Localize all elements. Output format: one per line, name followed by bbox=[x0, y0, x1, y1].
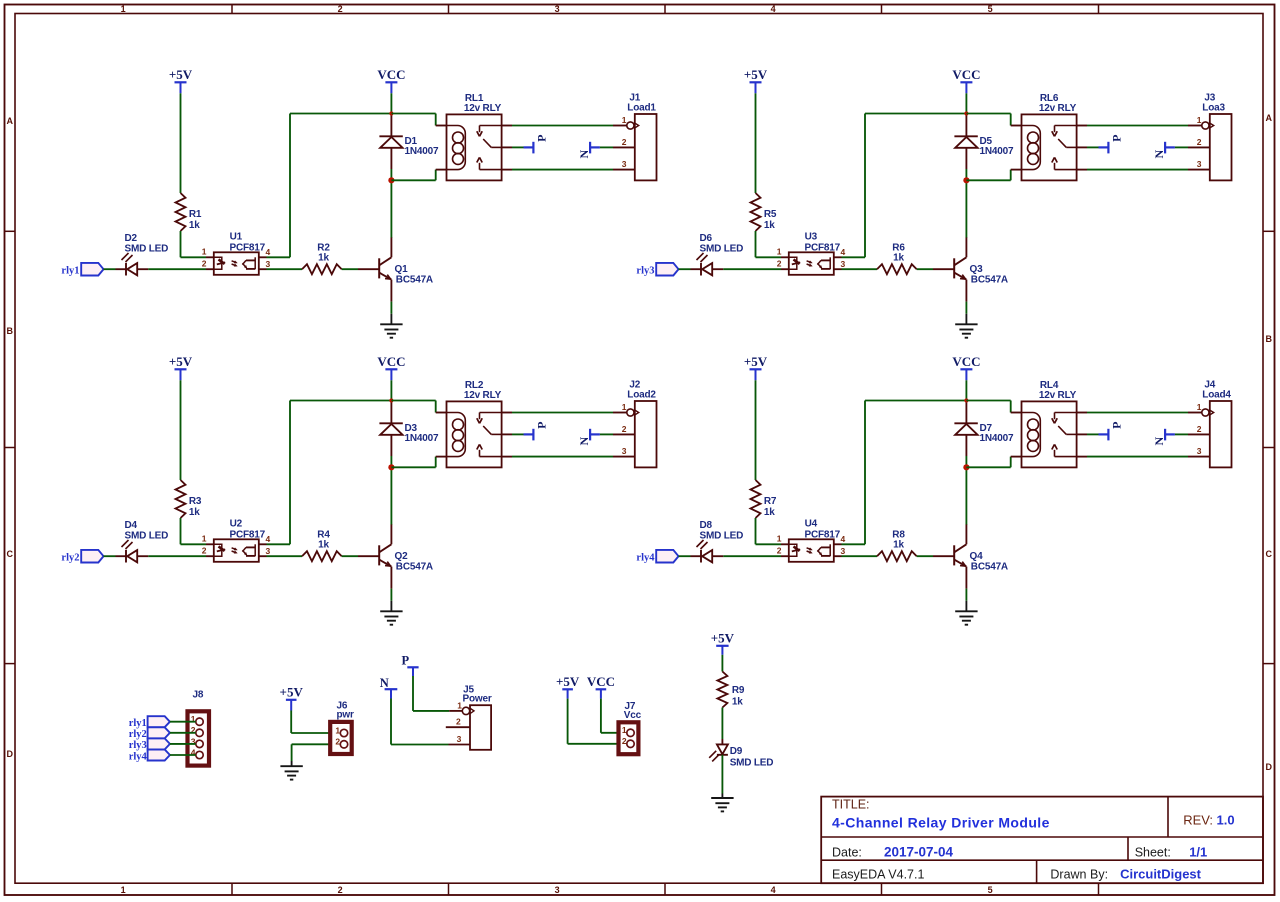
svg-text:CircuitDigest: CircuitDigest bbox=[1120, 866, 1202, 881]
svg-text:+5V: +5V bbox=[169, 67, 193, 82]
svg-text:P: P bbox=[534, 135, 548, 142]
svg-text:BC547A: BC547A bbox=[396, 274, 433, 285]
title block frame bbox=[821, 797, 1263, 884]
wire RL6 pin bottom to J3 pin 3 bbox=[1077, 169, 1087, 171]
connector J8 pin 3 circle bbox=[196, 740, 203, 747]
svg-text:+5V: +5V bbox=[280, 685, 304, 700]
svg-text:D6: D6 bbox=[700, 233, 713, 244]
relay RL2 12v RLY bbox=[447, 401, 502, 467]
wire R6 to Q3 base bbox=[917, 268, 933, 270]
svg-text:3: 3 bbox=[622, 159, 627, 169]
wire RL1 pin mid to flag P bbox=[502, 146, 512, 148]
optocoupler U1 PCF817 bbox=[214, 252, 259, 274]
resistor R5 1k bbox=[751, 193, 761, 231]
svg-text:12v RLY: 12v RLY bbox=[1039, 390, 1077, 401]
svg-text:D9: D9 bbox=[730, 746, 743, 757]
resistor R4 1k bbox=[302, 551, 342, 561]
wire collector node to Q3 bbox=[965, 180, 967, 237]
svg-text:4: 4 bbox=[266, 534, 271, 544]
wire D2 to U1 pin 2 bbox=[148, 268, 206, 270]
connector J8 pin 2 circle bbox=[196, 729, 203, 736]
net flag P bbox=[524, 433, 534, 435]
svg-text:Sheet:: Sheet: bbox=[1135, 846, 1171, 860]
LED D9 SMD LED bbox=[717, 744, 728, 754]
svg-text:4-Channel Relay Driver Module: 4-Channel Relay Driver Module bbox=[832, 815, 1050, 831]
svg-text:VCC: VCC bbox=[587, 674, 615, 689]
svg-text:N: N bbox=[1152, 437, 1166, 446]
connector J1 Load1 bbox=[635, 114, 657, 180]
wire rly3 to J8 pin 3 bbox=[170, 743, 196, 745]
svg-text:1k: 1k bbox=[732, 696, 743, 707]
wire U4 pin 3 to R8 bbox=[834, 555, 842, 557]
wire +5V to R5 bbox=[755, 93, 757, 193]
svg-text:4: 4 bbox=[841, 247, 846, 257]
net flag N bbox=[1164, 429, 1166, 441]
wire R1 to U1 pin 1 bbox=[180, 231, 182, 257]
svg-text:1: 1 bbox=[457, 700, 462, 710]
svg-text:12v RLY: 12v RLY bbox=[464, 390, 502, 401]
svg-text:2: 2 bbox=[777, 546, 782, 556]
svg-text:BC547A: BC547A bbox=[971, 561, 1008, 572]
svg-text:R9: R9 bbox=[732, 685, 745, 696]
wire node to RL6 coil top bbox=[966, 113, 1010, 115]
svg-text:1k: 1k bbox=[189, 220, 200, 231]
svg-text:3: 3 bbox=[1197, 159, 1202, 169]
optocoupler U3 PCF817 bbox=[789, 252, 834, 274]
svg-text:P: P bbox=[401, 654, 409, 668]
border row ticks left bbox=[5, 230, 16, 232]
wire VCC down bbox=[390, 93, 392, 113]
connector J6 pin 1 circle bbox=[340, 729, 347, 736]
svg-text:1k: 1k bbox=[318, 540, 329, 551]
LED D6 SMD LED bbox=[691, 268, 702, 270]
svg-text:P: P bbox=[1109, 422, 1123, 429]
resistor R7 1k bbox=[751, 480, 761, 518]
svg-text:B: B bbox=[7, 326, 14, 336]
wire D8 to U4 pin 2 bbox=[723, 555, 781, 557]
svg-text:B: B bbox=[1265, 334, 1272, 344]
net flag N bbox=[589, 142, 591, 154]
wire RL2 pin top to J2 pin 1 bbox=[502, 412, 512, 414]
svg-text:D4: D4 bbox=[125, 520, 138, 531]
wire +5V to J6 pin 1 bbox=[290, 711, 292, 734]
svg-text:1: 1 bbox=[1197, 402, 1202, 412]
svg-text:SMD LED: SMD LED bbox=[125, 243, 169, 254]
svg-text:VCC: VCC bbox=[377, 354, 405, 369]
svg-text:C: C bbox=[1265, 549, 1272, 559]
resistor R3 1k bbox=[176, 480, 186, 518]
wire U1 pin 4 to node VCC bbox=[259, 256, 267, 258]
wire collector node to Q2 bbox=[390, 467, 392, 524]
relay RL1 12v RLY bbox=[447, 114, 502, 180]
wire +5V to J7 pin 2 bbox=[567, 699, 569, 744]
svg-text:rly3: rly3 bbox=[129, 740, 147, 751]
wire U3 pin 3 to R6 bbox=[834, 268, 842, 270]
wire Q2 emitter to ground bbox=[390, 589, 392, 601]
svg-text:D: D bbox=[7, 749, 14, 759]
wire node to RL4 coil top bbox=[966, 400, 1010, 402]
svg-text:A: A bbox=[7, 116, 14, 126]
connector J6 pin 2 circle bbox=[340, 741, 347, 748]
svg-text:PCF817: PCF817 bbox=[230, 529, 266, 540]
svg-text:Loa3: Loa3 bbox=[1202, 103, 1225, 114]
svg-text:1: 1 bbox=[622, 402, 627, 412]
wire R5 to U3 pin 1 bbox=[755, 231, 757, 257]
connector J7 pin 2 circle bbox=[627, 740, 634, 747]
wire node to RL6 coil bottom bbox=[966, 179, 1010, 181]
svg-text:1: 1 bbox=[777, 534, 782, 544]
svg-text:U2: U2 bbox=[230, 518, 243, 529]
svg-text:TITLE:: TITLE: bbox=[832, 798, 870, 812]
wire +5V to R1 bbox=[180, 93, 182, 193]
wire U2 pin 4 to node VCC bbox=[259, 543, 267, 545]
svg-text:Load1: Load1 bbox=[627, 103, 656, 114]
svg-text:VCC: VCC bbox=[377, 67, 405, 82]
wire Q4 emitter to ground bbox=[965, 589, 967, 601]
svg-text:+5V: +5V bbox=[556, 674, 580, 689]
svg-text:2: 2 bbox=[202, 546, 207, 556]
svg-text:1: 1 bbox=[777, 247, 782, 257]
svg-text:PCF817: PCF817 bbox=[230, 242, 266, 253]
svg-text:+5V: +5V bbox=[169, 354, 193, 369]
wire rly4 to J8 pin 4 bbox=[170, 754, 196, 756]
svg-text:rly1: rly1 bbox=[129, 718, 147, 729]
wire rly2 to D4 bbox=[104, 555, 116, 557]
svg-text:D8: D8 bbox=[700, 520, 713, 531]
svg-text:U3: U3 bbox=[805, 231, 818, 242]
wire Q1 emitter to ground bbox=[390, 302, 392, 314]
svg-text:EasyEDA V4.7.1: EasyEDA V4.7.1 bbox=[832, 867, 924, 881]
wire U4 pin 4 to node VCC bbox=[834, 543, 842, 545]
wire Q3 emitter to ground bbox=[965, 302, 967, 314]
border column ticks bottom bbox=[231, 883, 233, 895]
svg-text:REV:: REV: bbox=[1183, 813, 1213, 828]
svg-text:SMD LED: SMD LED bbox=[730, 758, 774, 769]
svg-text:3: 3 bbox=[1197, 446, 1202, 456]
wire flag N to J3 pin 2 bbox=[1175, 146, 1188, 148]
svg-text:Vcc: Vcc bbox=[624, 710, 642, 721]
svg-text:1k: 1k bbox=[893, 540, 904, 551]
svg-text:D2: D2 bbox=[125, 233, 138, 244]
svg-text:1/1: 1/1 bbox=[1189, 845, 1207, 860]
wire rly3 to D6 bbox=[679, 268, 691, 270]
wire node to RL1 coil top bbox=[391, 113, 435, 115]
svg-text:C: C bbox=[7, 549, 14, 559]
svg-text:2: 2 bbox=[1197, 137, 1202, 147]
ground (channel 4) bbox=[955, 610, 977, 612]
junction node bottom bbox=[388, 464, 394, 470]
connector J2 Load2 bbox=[635, 401, 657, 467]
svg-text:Load4: Load4 bbox=[1202, 390, 1231, 401]
svg-text:2: 2 bbox=[202, 259, 207, 269]
wire VCC down bbox=[390, 380, 392, 400]
svg-text:R7: R7 bbox=[764, 496, 777, 507]
connector J7 pin 1 circle bbox=[627, 729, 634, 736]
net flag rly3 (J8) bbox=[148, 738, 170, 749]
svg-text:SMD LED: SMD LED bbox=[700, 530, 744, 541]
svg-text:N: N bbox=[1152, 150, 1166, 159]
svg-text:VCC: VCC bbox=[952, 354, 980, 369]
svg-text:2: 2 bbox=[1197, 424, 1202, 434]
diode D5 1N4007 bbox=[965, 114, 967, 137]
net flag N bbox=[589, 429, 591, 441]
svg-text:2: 2 bbox=[777, 259, 782, 269]
resistor R9 1k bbox=[717, 672, 727, 708]
svg-text:D: D bbox=[1265, 762, 1272, 772]
wire R2 to Q1 base bbox=[342, 268, 358, 270]
LED D2 SMD LED bbox=[116, 268, 127, 270]
wire D6 to U3 pin 2 bbox=[723, 268, 781, 270]
svg-text:U1: U1 bbox=[230, 231, 243, 242]
svg-text:BC547A: BC547A bbox=[971, 274, 1008, 285]
svg-text:3: 3 bbox=[555, 4, 560, 14]
wire R3 to U2 pin 1 bbox=[180, 518, 182, 544]
wire R9 to D9 bbox=[721, 708, 723, 740]
junction node VCC top bbox=[964, 398, 968, 402]
wire VCC down bbox=[965, 93, 967, 113]
connector J8 pin 4 circle bbox=[196, 751, 203, 758]
svg-text:rly2: rly2 bbox=[129, 729, 147, 740]
wire VCC down bbox=[965, 380, 967, 400]
border row ticks right bbox=[1263, 230, 1275, 232]
wire +5V to R7 bbox=[755, 380, 757, 480]
connector J5 pin 1 circle bbox=[462, 707, 469, 714]
connector J8 pin 1 circle bbox=[196, 718, 203, 725]
svg-text:1: 1 bbox=[121, 4, 126, 14]
junction node VCC top bbox=[964, 111, 968, 115]
wire collector node to Q4 bbox=[965, 467, 967, 524]
wire RL4 pin mid to flag P bbox=[1077, 433, 1087, 435]
wire node to RL4 coil bottom bbox=[966, 466, 1010, 468]
svg-text:1: 1 bbox=[335, 725, 340, 735]
svg-text:R5: R5 bbox=[764, 209, 777, 220]
svg-text:PCF817: PCF817 bbox=[805, 242, 841, 253]
svg-text:3: 3 bbox=[266, 546, 271, 556]
wire flag N to J1 pin 2 bbox=[600, 146, 613, 148]
ground (channel 3) bbox=[955, 323, 977, 325]
LED D4 SMD LED bbox=[116, 555, 127, 557]
wire +5V to R3 bbox=[180, 380, 182, 480]
svg-text:5: 5 bbox=[988, 885, 993, 895]
svg-text:+5V: +5V bbox=[744, 67, 768, 82]
junction node bottom bbox=[963, 464, 969, 470]
svg-text:Drawn By:: Drawn By: bbox=[1050, 867, 1108, 881]
wire RL2 pin mid to flag P bbox=[502, 433, 512, 435]
net flag N bbox=[1164, 142, 1166, 154]
svg-text:1k: 1k bbox=[764, 220, 775, 231]
svg-text:1.0: 1.0 bbox=[1217, 813, 1235, 828]
svg-text:1N4007: 1N4007 bbox=[405, 146, 439, 157]
wire N to J5 pin 3 bbox=[390, 699, 392, 745]
svg-text:rly4: rly4 bbox=[636, 553, 655, 564]
svg-text:1N4007: 1N4007 bbox=[980, 433, 1014, 444]
wire node to RL2 coil top bbox=[391, 400, 435, 402]
diode D7 1N4007 bbox=[965, 401, 967, 424]
svg-text:PCF817: PCF817 bbox=[805, 529, 841, 540]
LED D8 SMD LED bbox=[691, 555, 702, 557]
svg-text:rly3: rly3 bbox=[636, 266, 654, 277]
wire RL1 pin top to J1 pin 1 bbox=[502, 125, 512, 127]
wire RL2 pin bottom to J2 pin 3 bbox=[502, 456, 512, 458]
ground (channel 2) bbox=[380, 610, 402, 612]
border column ticks top bbox=[231, 5, 233, 14]
transistor Q1 BC547A bbox=[358, 268, 379, 270]
svg-text:1N4007: 1N4007 bbox=[980, 146, 1014, 157]
svg-text:P: P bbox=[534, 422, 548, 429]
svg-text:2: 2 bbox=[622, 137, 627, 147]
ground (J6) bbox=[280, 765, 302, 767]
svg-text:P: P bbox=[1109, 135, 1123, 142]
svg-text:4: 4 bbox=[841, 534, 846, 544]
svg-text:SMD LED: SMD LED bbox=[700, 243, 744, 254]
svg-text:12v RLY: 12v RLY bbox=[1039, 103, 1077, 114]
resistor R1 1k bbox=[176, 193, 186, 231]
connector J4 Load4 bbox=[1210, 401, 1232, 467]
wire RL1 pin bottom to J1 pin 3 bbox=[502, 169, 512, 171]
junction node bottom bbox=[388, 177, 394, 183]
wire +5V to R9 bbox=[721, 655, 723, 672]
junction node VCC top bbox=[389, 398, 393, 402]
svg-text:+5V: +5V bbox=[744, 354, 768, 369]
net flag P bbox=[524, 146, 534, 148]
svg-text:pwr: pwr bbox=[337, 710, 354, 721]
svg-text:1: 1 bbox=[202, 534, 207, 544]
svg-text:R1: R1 bbox=[189, 209, 202, 220]
resistor R2 1k bbox=[302, 264, 342, 274]
svg-text:N: N bbox=[577, 150, 591, 159]
svg-text:4: 4 bbox=[771, 885, 776, 895]
input net flag rly1 bbox=[81, 263, 103, 276]
svg-text:3: 3 bbox=[622, 446, 627, 456]
wire J6 pin 2 to ground bbox=[292, 743, 341, 745]
svg-text:2: 2 bbox=[456, 717, 461, 727]
optocoupler U4 PCF817 bbox=[789, 539, 834, 562]
svg-text:rly1: rly1 bbox=[61, 266, 79, 277]
input net flag rly3 bbox=[656, 263, 678, 276]
relay RL4 12v RLY bbox=[1022, 401, 1077, 467]
wire VCC to J7 pin 1 bbox=[600, 699, 602, 733]
resistor R8 1k bbox=[877, 551, 917, 561]
svg-text:1k: 1k bbox=[189, 507, 200, 518]
connector J3 Loa3 bbox=[1210, 114, 1232, 180]
svg-text:Load2: Load2 bbox=[627, 390, 656, 401]
wire U1 pin 3 to R2 bbox=[259, 268, 267, 270]
svg-text:3: 3 bbox=[555, 885, 560, 895]
svg-text:1: 1 bbox=[1197, 115, 1202, 125]
svg-text:3: 3 bbox=[266, 259, 271, 269]
svg-text:1N4007: 1N4007 bbox=[405, 433, 439, 444]
svg-text:4: 4 bbox=[266, 247, 271, 257]
svg-text:1k: 1k bbox=[318, 253, 329, 264]
wire rly1 to J8 pin 1 bbox=[170, 721, 196, 723]
transistor Q3 BC547A bbox=[933, 268, 954, 270]
wire U2 pin 3 to R4 bbox=[259, 555, 267, 557]
svg-text:R3: R3 bbox=[189, 496, 202, 507]
net flag P bbox=[1099, 146, 1109, 148]
input net flag rly4 bbox=[656, 550, 678, 563]
svg-text:2: 2 bbox=[338, 885, 343, 895]
svg-text:12v RLY: 12v RLY bbox=[464, 103, 502, 114]
optocoupler U2 PCF817 bbox=[214, 539, 259, 562]
wire RL6 pin top to J3 pin 1 bbox=[1077, 125, 1087, 127]
junction node VCC top bbox=[389, 111, 393, 115]
wire rly1 to D2 bbox=[104, 268, 116, 270]
diode D1 1N4007 bbox=[390, 114, 392, 137]
svg-text:2: 2 bbox=[338, 4, 343, 14]
svg-text:2: 2 bbox=[622, 424, 627, 434]
wire RL4 pin bottom to J4 pin 3 bbox=[1077, 456, 1087, 458]
diode D3 1N4007 bbox=[390, 401, 392, 424]
svg-text:rly2: rly2 bbox=[61, 553, 79, 564]
wire flag N to J2 pin 2 bbox=[600, 433, 613, 435]
net flag rly4 (J8) bbox=[148, 750, 170, 761]
wire P to J5 pin 1 bbox=[412, 676, 414, 711]
wire D4 to U2 pin 2 bbox=[148, 555, 206, 557]
input net flag rly2 bbox=[81, 550, 103, 563]
svg-text:U4: U4 bbox=[805, 518, 818, 529]
wire flag N to J4 pin 2 bbox=[1175, 433, 1188, 435]
transistor Q4 BC547A bbox=[933, 555, 954, 557]
wire RL6 pin mid to flag P bbox=[1077, 146, 1087, 148]
svg-text:5: 5 bbox=[988, 4, 993, 14]
wire node to RL2 coil bottom bbox=[391, 466, 435, 468]
svg-text:J8: J8 bbox=[193, 690, 204, 701]
svg-text:VCC: VCC bbox=[952, 67, 980, 82]
svg-text:1: 1 bbox=[121, 885, 126, 895]
relay RL6 12v RLY bbox=[1022, 114, 1077, 180]
svg-text:Power: Power bbox=[463, 693, 492, 704]
ground (D9) bbox=[711, 797, 733, 799]
svg-text:4: 4 bbox=[771, 4, 776, 14]
resistor R6 1k bbox=[877, 264, 917, 274]
svg-text:+5V: +5V bbox=[711, 631, 735, 646]
wire U3 pin 4 to node VCC bbox=[834, 256, 842, 258]
svg-text:3: 3 bbox=[841, 546, 846, 556]
svg-text:Date:: Date: bbox=[832, 846, 862, 860]
svg-text:2017-07-04: 2017-07-04 bbox=[884, 845, 954, 860]
ground (channel 1) bbox=[380, 323, 402, 325]
svg-text:2: 2 bbox=[335, 737, 340, 747]
wire R8 to Q4 base bbox=[917, 555, 933, 557]
net flag rly1 (J8) bbox=[148, 716, 170, 727]
svg-text:rly4: rly4 bbox=[129, 751, 148, 762]
svg-text:3: 3 bbox=[457, 734, 462, 744]
wire RL4 pin top to J4 pin 1 bbox=[1077, 412, 1087, 414]
svg-text:2: 2 bbox=[622, 736, 627, 746]
wire rly4 to D8 bbox=[679, 555, 691, 557]
svg-text:N: N bbox=[577, 437, 591, 446]
wire R4 to Q2 base bbox=[342, 555, 358, 557]
svg-text:1: 1 bbox=[622, 115, 627, 125]
svg-text:BC547A: BC547A bbox=[396, 561, 433, 572]
svg-text:SMD LED: SMD LED bbox=[125, 530, 169, 541]
wire rly2 to J8 pin 2 bbox=[170, 732, 196, 734]
svg-text:1k: 1k bbox=[764, 507, 775, 518]
net flag P bbox=[1099, 433, 1109, 435]
connector J5 pin 2 stub bbox=[446, 726, 470, 728]
net flag rly2 (J8) bbox=[148, 727, 170, 738]
wire node to RL1 coil bottom bbox=[391, 179, 435, 181]
svg-text:1: 1 bbox=[622, 725, 627, 735]
junction node bottom bbox=[963, 177, 969, 183]
svg-text:1k: 1k bbox=[893, 253, 904, 264]
transistor Q2 BC547A bbox=[358, 555, 379, 557]
wire R7 to U4 pin 1 bbox=[755, 518, 757, 544]
svg-text:3: 3 bbox=[841, 259, 846, 269]
wire collector node to Q1 bbox=[390, 180, 392, 237]
wire D9 to ground bbox=[721, 755, 723, 794]
svg-text:1: 1 bbox=[202, 247, 207, 257]
